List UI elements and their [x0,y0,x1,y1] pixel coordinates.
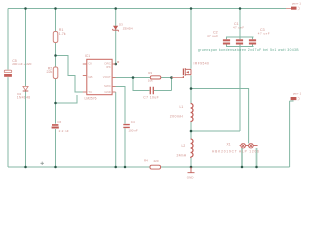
svg-text:IPK: IPK [106,65,111,69]
svg-text:10k: 10k [148,79,153,83]
svg-text:TC: TC [88,90,92,94]
svg-text:R3: R3 [148,71,152,75]
svg-text:C6: C6 [57,120,61,124]
svg-text:LM2576: LM2576 [85,97,97,101]
svg-text:VOUT: VOUT [103,75,111,79]
svg-text:47 ueF: 47 ueF [207,34,218,38]
svg-text:CII: CII [88,62,92,66]
svg-text:IC1: IC1 [85,54,90,58]
svg-text:200 mF + 220: 200 mF + 220 [12,62,31,66]
svg-text:GB: GB [88,75,92,79]
svg-text:ZEHD4: ZEHD4 [123,27,133,31]
svg-text:SWC: SWC [104,84,111,88]
svg-text:L2: L2 [182,144,186,148]
svg-text:2.2 nF: 2.2 nF [59,129,69,133]
svg-text:gruenspan kondensatoren 2x47uF: gruenspan kondensatoren 2x47uF bei 5x1 w… [198,48,299,52]
svg-text:1N4148: 1N4148 [17,96,31,100]
svg-text:R: R [117,60,119,64]
svg-text:pwr+ 1: pwr+ 1 [292,2,301,6]
svg-text:47 ueF: 47 ueF [233,26,244,30]
svg-text:HBK2019CT ALP 1206: HBK2019CT ALP 1206 [212,150,260,154]
svg-text:C7 10uF: C7 10uF [143,95,159,99]
svg-text:IRF9540: IRF9540 [194,62,210,66]
svg-text:GND: GND [104,90,110,94]
svg-text:X1: X1 [227,142,231,146]
svg-text:220: 220 [154,159,159,163]
svg-text:200mH: 200mH [170,114,183,118]
svg-text:L1: L1 [180,105,184,109]
svg-text:22k: 22k [47,70,53,74]
svg-text:GND: GND [187,175,195,179]
svg-text:C4: C4 [131,120,135,124]
svg-text:1.7k: 1.7k [59,32,66,36]
svg-text:47 ueF: 47 ueF [258,31,270,35]
svg-text:pwr- 1: pwr- 1 [293,91,302,95]
svg-text:100 nF: 100 nF [128,128,138,132]
svg-text:R4: R4 [144,158,148,162]
svg-text:24mH: 24mH [177,154,187,158]
